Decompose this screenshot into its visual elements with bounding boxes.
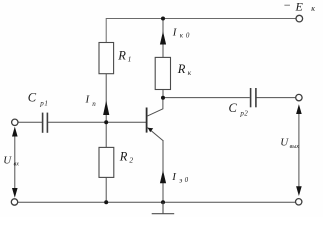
- wire: Rk top lead: [162, 19, 164, 58]
- resistor R2: [99, 147, 114, 177]
- label R2: [119, 149, 134, 164]
- label Rk: [177, 62, 192, 77]
- transistor VT base bar: [146, 108, 148, 133]
- svg-text:I: I: [85, 94, 91, 106]
- terminal: output bottom: [296, 199, 302, 205]
- svg-text:2: 2: [129, 156, 133, 165]
- wire: R2 top lead: [105, 122, 107, 147]
- wire: bottom rail: [18, 201, 296, 203]
- label Ip: [85, 94, 97, 108]
- node: Uvx measurement arrows: [12, 127, 18, 198]
- wire: Rk bottom lead to collector node: [162, 90, 164, 98]
- wire: input lead: [18, 121, 42, 123]
- svg-text:к: к: [188, 68, 192, 77]
- current arrow Ip (divider current): [103, 101, 109, 116]
- wire: top supply rail: [106, 19, 296, 43]
- svg-text:п: п: [92, 100, 96, 108]
- terminal: input bottom: [11, 199, 17, 205]
- label Ik0: [172, 26, 190, 39]
- wire: Cp2 to output terminal: [256, 97, 295, 99]
- wire: emitter vertical: [162, 140, 164, 202]
- terminal: output top: [296, 94, 302, 100]
- capacitor Cp2: [251, 88, 256, 107]
- capacitor Cp1: [43, 113, 48, 133]
- label Ie0: [171, 171, 188, 185]
- junction: emitter / bottom rail: [161, 200, 165, 204]
- current arrow Ik0: [160, 31, 166, 44]
- transistor VT collector lead: [147, 98, 163, 116]
- svg-text:к: к: [180, 32, 184, 40]
- svg-text:R: R: [177, 62, 186, 76]
- label Cp1: [28, 91, 49, 108]
- svg-text:C: C: [28, 91, 37, 105]
- svg-text:э: э: [179, 176, 182, 184]
- resistor R1: [99, 43, 114, 74]
- svg-text:U: U: [3, 154, 12, 166]
- svg-text:0: 0: [185, 176, 189, 184]
- wire: output horizontal to Cp2: [163, 97, 250, 99]
- terminal: input top: [12, 119, 18, 125]
- svg-text:1: 1: [128, 54, 132, 63]
- svg-text:0: 0: [186, 32, 190, 40]
- terminal: -Ek supply: [296, 15, 303, 22]
- wire: R2 bottom lead: [105, 177, 107, 202]
- ground: [152, 202, 175, 213]
- svg-text:U: U: [280, 136, 289, 148]
- label Uvyx: [280, 136, 299, 150]
- svg-text:I: I: [172, 26, 178, 38]
- junction: top rail / Rk branch: [161, 17, 165, 21]
- transistor VT emitter lead: [147, 127, 163, 140]
- transistor VT emitter arrow (PNP): [148, 128, 153, 133]
- svg-text:р1: р1: [39, 99, 48, 107]
- current arrow Ie0: [160, 170, 166, 183]
- junction: base node: [104, 120, 108, 124]
- label R1: [117, 49, 131, 64]
- svg-text:−: −: [283, 0, 291, 12]
- svg-text:I: I: [171, 171, 177, 183]
- label Uvx: [3, 154, 19, 167]
- label Cp2: [229, 101, 249, 118]
- label -Ek: [283, 0, 315, 13]
- svg-text:C: C: [229, 101, 238, 115]
- wire: R1 bottom lead to base node: [105, 74, 107, 123]
- svg-text:к: к: [311, 4, 315, 13]
- wire: base horizontal: [48, 121, 147, 123]
- node: Uvyx measurement arrows: [296, 104, 302, 196]
- resistor Rk: [155, 57, 170, 89]
- svg-text:R: R: [119, 149, 128, 163]
- svg-text:E: E: [295, 0, 304, 13]
- svg-text:р2: р2: [239, 110, 248, 118]
- junction: R2 / bottom rail: [104, 200, 108, 204]
- svg-text:R: R: [117, 49, 126, 63]
- svg-text:вх: вх: [14, 162, 20, 168]
- svg-text:вых: вых: [290, 144, 300, 150]
- junction: collector node: [161, 96, 165, 100]
